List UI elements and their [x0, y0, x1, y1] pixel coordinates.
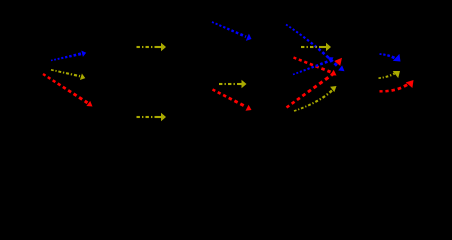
- olive asc arrow p3: [294, 86, 337, 111]
- olive arrow p3 mid: [301, 43, 331, 51]
- olive arrow p4: [379, 71, 401, 78]
- olive arrow p1: [51, 70, 85, 80]
- red asc arrow p3: [287, 58, 343, 108]
- red arrow p3 lower-left: [213, 90, 252, 111]
- blue arrow p1: [51, 51, 86, 61]
- blue shallow arrow p3: [293, 57, 334, 74]
- vowel chain-shift diagram: black background, colored dashed shift arrows: [0, 0, 452, 132]
- red arrow p1: [43, 74, 93, 107]
- olive arrow p2 bottom: [137, 113, 167, 121]
- red arrow p4: [380, 80, 414, 91]
- olive arrow p3 left-mid: [219, 80, 247, 88]
- blue steep arrow p3: [286, 25, 345, 72]
- olive arrow p2 top: [137, 43, 167, 51]
- blue arrow p4: [380, 54, 401, 62]
- red desc arrow p3: [294, 58, 337, 76]
- blue arrow p3 upper-left: [212, 22, 252, 41]
